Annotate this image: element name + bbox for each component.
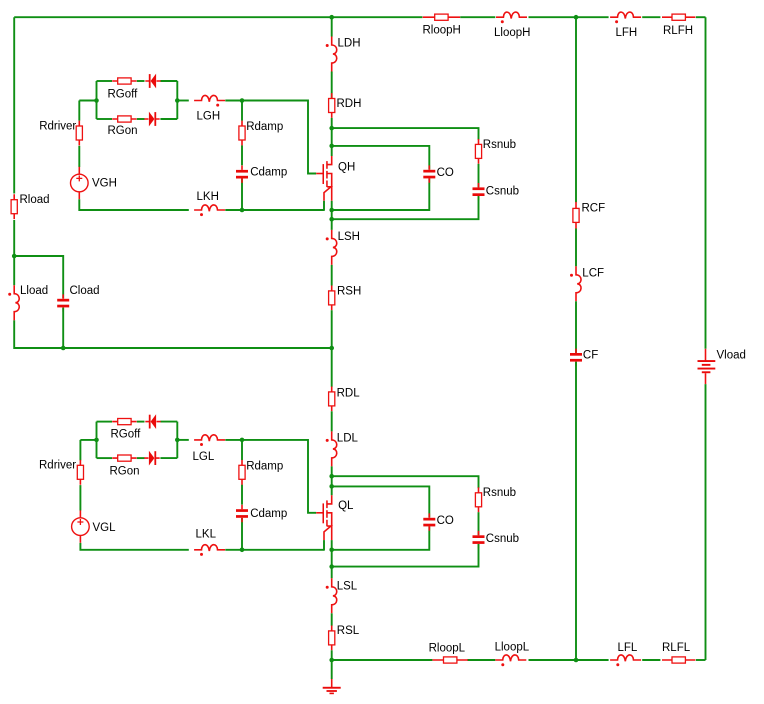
wire rail LDH-RDH — [331, 72, 333, 99]
label LDH — [338, 38, 361, 50]
node top-left corner / left border wire — [13, 17, 15, 193]
wire Vload rail bottom — [705, 384, 707, 660]
wire rail below lower outer box — [331, 550, 333, 579]
resistor RSH — [329, 286, 335, 311]
svg-text:Cdamp: Cdamp — [250, 167, 287, 179]
label Rdamp upper — [246, 121, 283, 133]
wire rail to ground — [331, 660, 333, 679]
inductor LSH — [332, 230, 337, 265]
wire lower damp branch — [241, 440, 243, 550]
label RDH — [337, 98, 362, 110]
junction dot outer box bottom — [329, 217, 334, 222]
junction dot QH source — [329, 208, 334, 213]
inductor LSL — [332, 578, 337, 613]
svg-text:Cdamp: Cdamp — [250, 508, 287, 520]
junction dot bottom bus at rail — [329, 658, 334, 663]
resistor RLFH — [662, 14, 695, 20]
capacitor Cdamp upper — [236, 166, 248, 183]
junction dot lower driver right — [175, 438, 180, 443]
label RGon upper — [108, 125, 138, 137]
source Vload battery — [698, 349, 716, 384]
svg-text:Rload: Rload — [20, 194, 50, 206]
wire lower outer snubber box top — [332, 476, 479, 488]
svg-text:Rdriver: Rdriver — [39, 120, 76, 132]
wire LSL-RSL — [331, 613, 333, 625]
svg-text:LFL: LFL — [618, 642, 638, 654]
junction dot upper driver left — [94, 98, 99, 103]
label LKL — [196, 529, 217, 541]
label QL — [338, 500, 354, 512]
svg-text:RloopH: RloopH — [423, 25, 461, 37]
diode upper RGoff — [145, 74, 160, 89]
svg-text:LloopH: LloopH — [494, 27, 530, 39]
junction dot top bus at rail — [329, 15, 334, 20]
junction dot top bus at filter rail — [574, 15, 579, 20]
wire LKH to source junction — [225, 209, 324, 211]
junction dot lower outer box bottom — [329, 564, 334, 569]
wire filter rail top — [575, 17, 577, 202]
svg-text:Rdamp: Rdamp — [246, 460, 283, 472]
inductor LKL — [194, 545, 225, 551]
diode upper RGon — [144, 112, 159, 127]
svg-text:RLFH: RLFH — [663, 25, 693, 37]
svg-text:RGoff: RGoff — [108, 89, 139, 101]
label Cdamp upper — [250, 167, 287, 179]
label LloopL — [495, 641, 530, 653]
wire LKL to source junction — [225, 549, 324, 551]
svg-text:VGH: VGH — [92, 178, 117, 190]
junction dot left-mid — [12, 254, 17, 259]
junction dot mid-wire at rail — [329, 346, 334, 351]
wire Lload top to Cload — [14, 256, 63, 299]
svg-text:Rdamp: Rdamp — [246, 121, 283, 133]
svg-text:Csnub: Csnub — [486, 186, 519, 198]
svg-text:VGL: VGL — [93, 522, 117, 534]
svg-text:LGH: LGH — [197, 111, 221, 123]
junction dot damp bottom — [240, 208, 245, 213]
inductor LCF — [576, 266, 581, 301]
wire LCF-CF — [575, 301, 577, 353]
svg-text:LKH: LKH — [197, 191, 219, 203]
resistor RLFL — [662, 657, 695, 663]
label LSL — [337, 581, 358, 593]
inductor Lload — [14, 285, 19, 320]
resistor RGon upper — [112, 116, 136, 122]
phase dot LCF — [570, 274, 573, 277]
label RLFH — [663, 25, 693, 37]
wire inner snubber box — [332, 146, 430, 210]
svg-text:QL: QL — [338, 500, 354, 512]
svg-text:Lload: Lload — [20, 285, 48, 297]
capacitor Cdamp lower — [236, 505, 248, 522]
svg-text:RSH: RSH — [337, 286, 361, 298]
source VGH — [71, 167, 89, 199]
capacitor CO lower — [423, 513, 435, 530]
wire rail below outer box — [331, 210, 333, 230]
svg-text:QH: QH — [338, 161, 355, 173]
ground — [323, 679, 341, 694]
svg-text:CF: CF — [583, 350, 598, 362]
label Cdamp lower — [250, 508, 287, 520]
label LSH — [338, 231, 360, 243]
svg-text:LDH: LDH — [338, 38, 361, 50]
junction dot damp top — [240, 98, 245, 103]
svg-text:RGoff: RGoff — [111, 429, 142, 441]
svg-text:LDL: LDL — [337, 433, 359, 445]
resistor RloopL — [433, 657, 468, 663]
label LFL — [618, 642, 638, 654]
svg-text:RSL: RSL — [337, 625, 360, 637]
wire outer snubber box bottom — [332, 196, 479, 219]
wire lower Rsnub-Csnub — [478, 512, 480, 535]
resistor RGon lower — [112, 455, 136, 461]
wire top bus — [14, 16, 705, 18]
label LloopH — [494, 27, 530, 39]
label Rdamp lower — [246, 460, 283, 472]
label LFH — [616, 27, 638, 39]
svg-text:Rsnub: Rsnub — [483, 139, 516, 151]
wire RDL-LDL — [331, 411, 333, 431]
label Rsnub lower — [483, 487, 516, 499]
label RGoff upper — [108, 89, 139, 101]
diode lower RGon — [144, 451, 159, 466]
svg-text:Rdriver: Rdriver — [39, 460, 76, 472]
wire Cload bottom — [62, 308, 64, 348]
resistor RDL — [329, 387, 335, 412]
resistor Rload — [11, 194, 17, 219]
resistor RSL — [329, 626, 335, 651]
capacitor Csnub upper — [473, 183, 485, 200]
wire lower gate path — [177, 440, 316, 513]
capacitor CF — [570, 349, 582, 366]
resistor Rsnub lower — [475, 487, 481, 512]
phase dot Lload — [8, 293, 11, 296]
phase dot LSH — [326, 237, 329, 240]
label CO upper — [437, 167, 454, 179]
svg-text:LGL: LGL — [193, 451, 215, 463]
label RLFL — [662, 642, 691, 654]
wire QH source leads — [324, 201, 332, 211]
resistor Rdamp lower — [239, 460, 245, 485]
label VGL — [93, 522, 117, 534]
resistor Rdamp upper — [239, 121, 245, 146]
phase dot LGL — [200, 443, 203, 446]
label Cload — [70, 285, 100, 297]
label Rdriver upper — [39, 120, 76, 132]
resistor RGoff lower — [112, 419, 136, 425]
label Lload — [20, 285, 48, 297]
wire Vload rail top — [705, 17, 707, 349]
label LGH — [197, 111, 221, 123]
svg-text:LloopL: LloopL — [495, 641, 530, 653]
inductor LFH — [610, 12, 641, 18]
label Vload — [717, 349, 746, 361]
diode lower RGoff — [145, 414, 160, 429]
resistor RDH — [329, 93, 335, 118]
wire VGL bottom — [80, 543, 188, 550]
inductor LGH — [194, 95, 225, 101]
phase dot LDL — [326, 439, 329, 442]
label CF — [583, 350, 598, 362]
inductor LKH — [194, 205, 225, 211]
label Csnub upper — [486, 186, 519, 198]
svg-text:Rsnub: Rsnub — [483, 487, 516, 499]
svg-text:CO: CO — [437, 515, 454, 527]
junction dot QL source — [329, 548, 334, 553]
wire RCF-LCF — [575, 229, 577, 267]
resistor RGoff upper — [112, 78, 136, 84]
inductor LDL — [332, 431, 337, 466]
wire lower driver loop — [97, 422, 178, 459]
label RGon lower — [110, 465, 140, 477]
svg-text:LSH: LSH — [338, 231, 360, 243]
wire left border to bottom — [14, 320, 332, 348]
junction dot lower damp top — [240, 438, 245, 443]
wire rail RDH-junctions — [331, 118, 333, 156]
svg-text:LSL: LSL — [337, 581, 358, 593]
wire upper driver left branch — [79, 101, 96, 121]
wire damp branch — [241, 101, 243, 211]
label RSH — [337, 286, 361, 298]
wire Rsnub-Csnub — [478, 164, 480, 188]
label CO lower — [437, 515, 454, 527]
wire bottom bus — [332, 659, 706, 661]
transistor QH — [316, 156, 332, 201]
wire upper gate path — [177, 101, 316, 174]
label RloopH — [423, 25, 461, 37]
phase dot LGH — [216, 104, 219, 107]
label LGL — [193, 451, 215, 463]
label QH — [338, 161, 355, 173]
wire LDL-junctions — [331, 466, 333, 495]
transistor QL — [316, 495, 332, 540]
inductor LGL — [194, 435, 225, 441]
label Csnub lower — [486, 533, 519, 545]
junction dot lower driver left — [94, 438, 99, 443]
label LCF — [582, 268, 604, 280]
label Rsnub upper — [483, 139, 516, 151]
junction dot bottom bus at filter rail — [574, 658, 579, 663]
wire lower outer snubber box bottom — [332, 544, 479, 567]
junction dot outer box top — [329, 126, 334, 131]
wire left border lower — [13, 220, 15, 285]
phase dot LloopL — [501, 663, 504, 666]
phase dot LDH — [326, 44, 329, 47]
svg-text:RCF: RCF — [582, 203, 606, 215]
junction dot lower inner box top — [329, 484, 334, 489]
inductor LloopL — [495, 655, 526, 661]
svg-text:LFH: LFH — [616, 27, 638, 39]
wire rail top segment — [331, 17, 333, 36]
junction dot inner box top — [329, 144, 334, 149]
capacitor Csnub lower — [473, 531, 485, 548]
svg-text:LCF: LCF — [582, 268, 604, 280]
resistor Rdriver upper — [76, 121, 82, 146]
phase dot LFH — [615, 20, 618, 23]
phase dot LloopH — [501, 20, 504, 23]
svg-text:RDH: RDH — [337, 98, 362, 110]
svg-text:RGon: RGon — [110, 465, 140, 477]
svg-text:RGon: RGon — [108, 125, 138, 137]
wire RSL-bottom junction — [331, 650, 333, 660]
phase dot LKL — [200, 553, 203, 556]
svg-text:RDL: RDL — [337, 387, 361, 399]
label LKH — [197, 191, 219, 203]
svg-text:LKL: LKL — [196, 529, 217, 541]
inductor LDH — [332, 37, 337, 72]
junction dot Cload-bottom — [61, 346, 66, 351]
resistor RloopH — [423, 14, 460, 20]
svg-text:Csnub: Csnub — [486, 533, 519, 545]
resistor RCF — [573, 202, 579, 229]
phase dot LSL — [326, 586, 329, 589]
label LDL — [337, 433, 359, 445]
label RSL — [337, 625, 360, 637]
wire Rdriver-VGL — [79, 485, 81, 510]
inductor LloopH — [496, 12, 527, 18]
wire lower driver left branch — [80, 440, 96, 461]
capacitor Cload — [57, 294, 69, 311]
wire QL source leads — [324, 540, 332, 551]
phase dot LKH — [200, 213, 203, 216]
resistor Rsnub upper — [475, 139, 481, 164]
wire VGH bottom — [79, 199, 189, 210]
label RGoff lower — [111, 429, 142, 441]
label Rdriver lower — [39, 460, 76, 472]
junction dot upper driver right — [175, 98, 180, 103]
svg-text:RLFL: RLFL — [662, 642, 691, 654]
svg-text:CO: CO — [437, 167, 454, 179]
label RCF — [582, 203, 606, 215]
svg-text:Cload: Cload — [70, 285, 100, 297]
label RloopL — [429, 642, 466, 654]
wire RSH-RDL — [331, 310, 333, 386]
resistor Rdriver lower — [77, 460, 83, 485]
junction dot lower outer box top — [329, 474, 334, 479]
junction dot lower damp bottom — [240, 548, 245, 553]
wire CF-bottom — [575, 362, 577, 660]
capacitor CO upper — [423, 165, 435, 182]
label Rload — [20, 194, 50, 206]
label VGH — [92, 178, 117, 190]
svg-text:RloopL: RloopL — [429, 642, 466, 654]
wire Rdriver-VGH — [78, 146, 80, 167]
svg-text:Vload: Vload — [717, 349, 746, 361]
wire lower inner snubber box — [332, 486, 430, 549]
wire LSH-RSH — [331, 265, 333, 286]
inductor LFL — [610, 655, 641, 661]
wire upper driver loop — [97, 81, 178, 119]
wire outer snubber box top — [332, 128, 479, 140]
source VGL — [72, 510, 90, 542]
label RDL — [337, 387, 361, 399]
phase dot LFL — [616, 663, 619, 666]
